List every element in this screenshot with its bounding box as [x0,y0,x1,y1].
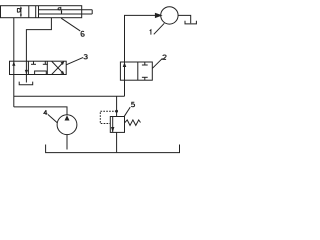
wire valve V2 to motor [125,15,156,62]
label d [58,7,61,10]
tank under valve [19,82,33,85]
relief valve R5 pilot dashed [100,111,116,123]
wire cylinder left port to valve [13,18,15,62]
cylinder C6 internal line [28,6,30,18]
relief valve R5 top line [116,96,118,116]
leader 5 [124,107,130,116]
main tank [46,145,180,153]
main pressure line [14,95,125,97]
cylinder C6 rod [39,9,93,11]
leader 6 [61,18,80,31]
label 1 [150,30,151,35]
relief valve R5 spring [125,120,141,126]
pump P4 circle [57,115,77,135]
label D [17,9,20,13]
leader 3 [66,57,83,64]
wire to valve V2 [124,80,126,96]
valve V3 pos1 arrow down [25,61,28,74]
valve V3 pos1 arrow up [12,61,15,74]
relief valve R5 bottom line [116,132,118,152]
valve V2 blocked top [142,62,148,65]
leader 2 [152,58,162,68]
cylinder C6 piston [35,6,37,18]
label 3 [84,55,88,59]
label 2 [163,55,166,59]
valve V2 through arrow [123,62,127,80]
leader 4 [48,114,58,123]
relief valve R5 arrow [111,117,114,133]
pump P4 triangle [65,115,70,120]
dimension D arrow [20,6,22,17]
wire valve P down [13,75,15,107]
pump supply line [14,107,67,115]
valve V3 pos2 blocked port T2 [43,61,48,64]
wire valve T down [25,75,27,83]
relief valve R5 body [110,117,124,133]
valve V3 body [10,61,67,74]
cylinder C6 barrel [1,6,82,18]
valve V3 pos3 cross arrows [52,61,65,74]
motor M1 circle [161,7,178,24]
dimension d arrow [61,10,63,14]
leader 1 [154,23,165,34]
junction dot [115,110,118,113]
label 5 [131,102,134,107]
pump P4 suction [66,135,68,150]
valve V2 body [120,62,152,80]
label 6 [81,31,84,36]
motor tank [185,21,196,24]
valve V3 pos2 bypass bridge [35,71,47,75]
motor M1 outlet [178,15,191,23]
valve V2 blocked bottom [142,77,148,80]
wire cylinder right port jog [26,18,51,62]
label 4 [44,110,47,115]
valve V3 pos2 blocked port T1 [31,61,36,64]
flow arrowhead [155,13,163,18]
